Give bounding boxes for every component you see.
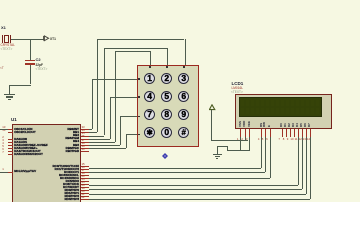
lcd pin 5 RW <box>263 118 266 127</box>
U1 pin 37 RB4 <box>81 142 90 143</box>
keypad button 0 <box>161 127 172 138</box>
keypad button 7 <box>144 109 155 120</box>
keypad button 3 <box>178 73 189 84</box>
keypad button 5 <box>161 91 172 102</box>
wire LCD RS to MCU <box>261 137 262 169</box>
U1 pin 26 RC7/RX/DT <box>81 187 90 188</box>
text placeholder C2 <box>36 68 48 71</box>
U1 pin 5 RA3/AN3/VREF+ <box>8 148 14 149</box>
wire ground bus <box>227 150 250 151</box>
keypad column pin marks <box>149 66 151 68</box>
keypad button 6 <box>178 91 189 102</box>
value CRYSTAL <box>1 44 15 47</box>
U1 pin 14 OSC2/CLKOUT <box>8 132 14 133</box>
wire VDD drop <box>245 137 246 141</box>
label C2 <box>36 58 41 62</box>
U1 pin 13 OSC1/CLKIN <box>8 129 14 130</box>
lcd pin 3 VEE <box>248 118 251 127</box>
wire VSS drop <box>240 137 241 151</box>
wire VEE drop <box>249 137 250 151</box>
U1 pin 19 RD0/PSP0 <box>81 190 90 191</box>
keypad button 9 <box>178 109 189 120</box>
U1 pin 6 RA4/T0CKI/C1OUT <box>8 151 14 152</box>
U1 pin 16 RC1/T1OSI/CCP2 <box>81 169 90 170</box>
keypad button 2 <box>161 73 172 84</box>
mcu U1 box <box>12 124 81 210</box>
keypad button 1 <box>144 73 155 84</box>
lcd screen <box>239 97 322 117</box>
U1 pin 15 RC0/T1OSO/T1CKI <box>81 166 90 167</box>
lcd pin 9 D2 <box>288 118 291 127</box>
keypad button # <box>178 127 189 138</box>
U1 pin 40 RB7/PGD <box>81 151 90 152</box>
U1 pin 39 RB6/PGC <box>81 148 90 149</box>
keypad button 8 <box>161 109 172 120</box>
wire RB2 to keypad col2 (middle loop) <box>89 136 104 137</box>
label X1 <box>1 26 6 30</box>
keypad row pin marks <box>138 78 140 80</box>
text placeholder X1 <box>1 48 13 51</box>
U1 pin 18 RC3/SCK/SCL <box>81 175 90 176</box>
lcd pin 8 D1 <box>284 118 287 127</box>
U1 pin 34 RB1 <box>81 132 90 133</box>
lcd pin 10 D3 <box>292 118 295 127</box>
U1 pin 36 RB3/PGM <box>81 139 90 140</box>
capacitor C2 <box>25 60 35 62</box>
ground (crystal caps) <box>4 94 15 95</box>
lcd pin 1 VSS <box>239 118 242 127</box>
U1 pin 25 RC6/TX/CK <box>81 184 90 185</box>
U1 pin 3 RA1/AN1 <box>8 142 14 143</box>
U1 pin 35 RB2 <box>81 136 90 137</box>
U1 pin 7 RA5/AN4/SS/C2OUT <box>8 154 14 155</box>
lcd pin 13 D6 <box>304 118 307 127</box>
U1 pin 22 RD3/PSP3 <box>81 199 90 200</box>
wire power to VDD <box>211 110 212 140</box>
wire RB5 to keypad row3 <box>89 145 120 146</box>
terminal label <box>50 38 56 41</box>
lcd pin 11 D4 <box>296 118 299 127</box>
wire MCLR from left edge <box>0 172 8 173</box>
U1 pin 24 RC5/SDO <box>81 181 90 182</box>
value LM016L <box>232 87 244 90</box>
U1 pin 17 RC2/CCP1 <box>81 172 90 173</box>
power terminal <box>209 104 216 111</box>
wire LCD D6 to MCU <box>306 137 307 194</box>
wire crystal to terminal <box>11 39 44 40</box>
wire OSC1 from left edge <box>0 129 8 130</box>
keypad button &#10033; <box>144 127 155 138</box>
value 22pF <box>36 64 43 67</box>
U1 pin 33 RB0/INT <box>81 129 90 130</box>
keypad anchor diamond <box>162 153 168 159</box>
wire junction to C2 <box>30 39 31 60</box>
U1 pin 20 RD1/PSP1 <box>81 193 90 194</box>
U1 pin 21 RD2/PSP2 <box>81 196 90 197</box>
lcd pin 12 D5 <box>300 118 303 127</box>
wire RB1 to keypad col3 (outer loop) <box>89 132 97 133</box>
wire LCD E to MCU <box>270 137 271 178</box>
wire RB3 to keypad row2 <box>89 139 110 140</box>
lcd body <box>235 94 332 130</box>
U1 pin 2 RA0/AN0 <box>8 139 14 140</box>
lcd pin 7 D0 <box>280 118 283 127</box>
lcd character cells (subtle) <box>241 100 244 106</box>
wire RB0 to keypad row1 <box>89 129 92 130</box>
lcd pin 14 D7 <box>308 118 311 127</box>
label LCD1 <box>232 82 244 87</box>
text placeholder LCD1 <box>231 91 243 94</box>
wire LCD RW to MCU <box>265 137 266 173</box>
keypad button 4 <box>144 91 155 102</box>
U1 pin 1 MCLR/Vpp/THV <box>8 172 14 173</box>
tiny cropped label left edge <box>0 67 4 70</box>
U1 pin 4 RA2/AN2/VREF-/CVREF <box>8 145 14 146</box>
lcd pin 6 E <box>268 118 271 127</box>
wire C2 to ground <box>30 65 31 85</box>
terminal arrow OSC1 <box>43 35 50 42</box>
U1 pin 38 RB5 <box>81 145 90 146</box>
keypad body <box>137 65 199 147</box>
wire RB4 to keypad col1 (inner loop) <box>89 142 115 143</box>
wire LCD D7 to MCU <box>310 137 311 199</box>
ground (LCD) <box>213 154 222 155</box>
wire RB6 to keypad row4 <box>89 148 126 149</box>
wire LCD D4 to MCU <box>298 137 299 185</box>
wire LCD D5 to MCU <box>302 137 303 190</box>
crystal X1 <box>4 35 9 44</box>
U1 pin 23 RC4/SDI/SDA <box>81 178 90 179</box>
lcd pin 2 VDD <box>243 118 246 127</box>
label U1 <box>11 118 17 123</box>
lcd pin 4 RS <box>260 118 263 127</box>
